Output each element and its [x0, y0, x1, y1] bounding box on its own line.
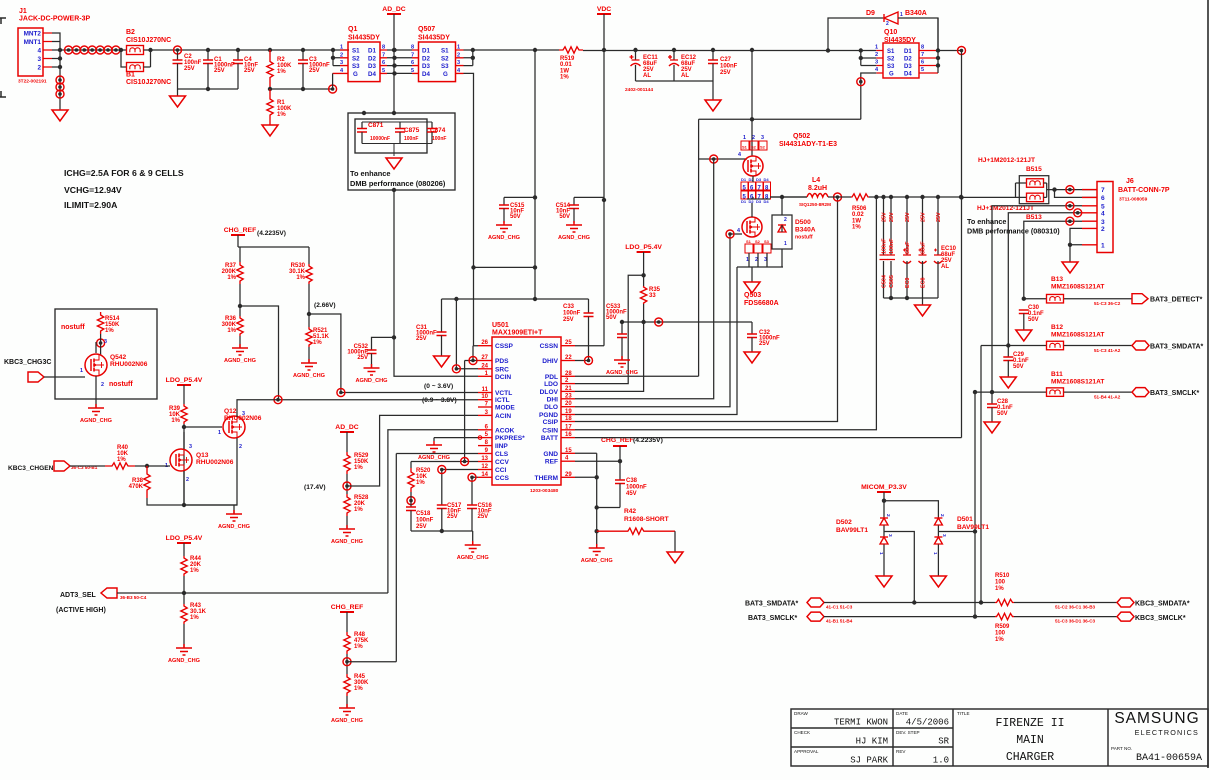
capacitor C875 label — [404, 127, 420, 134]
wire CCV row — [411, 462, 478, 469]
capacitor C518 label — [416, 511, 434, 530]
junction C28 — [990, 390, 994, 394]
transistor Q542 — [85, 354, 107, 376]
wire CCS row — [472, 477, 478, 505]
capacitor EC10 — [934, 197, 942, 298]
svg-text:Q542: Q542 — [110, 354, 126, 361]
svg-text:D2: D2 — [422, 55, 430, 62]
wire Q542 source gnd — [95, 376, 97, 408]
wire rail VDC segment — [464, 49, 560, 51]
connector J6 part name — [1118, 187, 1170, 194]
svg-text:1.0: 1.0 — [933, 756, 949, 766]
annotation box Q542 — [55, 309, 157, 399]
wire GND row — [575, 453, 597, 546]
junction B2 right — [148, 48, 152, 52]
diode D501 upper — [934, 518, 942, 525]
diode D9 — [884, 12, 903, 27]
svg-text:3: 3 — [761, 135, 764, 141]
transistor Q13 — [170, 449, 192, 471]
junction bank bus — [889, 296, 893, 300]
junction AD_DC row3 — [392, 63, 396, 67]
wire Q502 drain node — [747, 176, 807, 199]
wire J6 pin4 staircase — [1008, 213, 1082, 346]
wire R35 to C32 node — [622, 304, 752, 322]
transistor Q503 part — [744, 300, 779, 307]
resistor R506 — [851, 194, 869, 200]
junction C1 — [206, 48, 210, 52]
resistor R45 — [344, 674, 350, 696]
wire VDC vertical to CSSN — [603, 14, 605, 346]
junction EC10 — [936, 195, 940, 199]
wire J1 MNT1 — [52, 41, 60, 43]
connector J6 pin numbers — [1101, 187, 1105, 249]
svg-text:1203-003480: 1203-003480 — [530, 488, 559, 494]
svg-text:1%: 1% — [105, 328, 114, 334]
transistor Q502 — [743, 156, 763, 176]
resistor R2 label — [277, 57, 292, 75]
svg-text:BAV99LT1: BAV99LT1 — [836, 527, 868, 534]
svg-text:20: 20 — [565, 401, 572, 407]
wire C871 top bus — [362, 121, 432, 123]
junction AD_DC row4 — [392, 71, 396, 75]
svg-text:AGND_CHG: AGND_CHG — [293, 373, 325, 379]
capacitor C38 — [615, 480, 625, 508]
svg-text:D3: D3 — [756, 199, 762, 204]
wire AD_DC stem — [393, 14, 395, 113]
wire ICTL feed — [278, 399, 478, 401]
svg-text:J6: J6 — [1126, 178, 1134, 185]
svg-text:25V: 25V — [357, 355, 368, 361]
wire R530 R521 — [308, 284, 310, 327]
capacitor C31 label — [416, 325, 437, 342]
svg-text:D4: D4 — [764, 199, 770, 204]
svg-text:B513: B513 — [1026, 214, 1042, 221]
transistor Q503 reference — [744, 292, 761, 299]
power MICOM_P3.3V — [861, 484, 907, 492]
bead B515 lower — [1027, 193, 1044, 202]
capacitor EC9 — [903, 197, 911, 298]
svg-text:APPROVAL: APPROVAL — [794, 749, 819, 754]
off-page ref SMDATA bottom — [826, 605, 853, 610]
capacitor C875 — [395, 122, 405, 144]
resistor R48 label — [354, 632, 369, 650]
annotation box DMB 080206 outer — [348, 113, 455, 190]
svg-text:CCV: CCV — [495, 459, 510, 466]
svg-text:470K: 470K — [129, 484, 144, 490]
svg-text:Q12: Q12 — [224, 408, 237, 415]
resistor R40 label — [117, 445, 129, 463]
resistor R1 — [267, 89, 273, 125]
svg-text:(4.2235V): (4.2235V) — [257, 230, 286, 237]
svg-text:100nF: 100nF — [416, 518, 434, 524]
svg-text:3: 3 — [875, 60, 878, 66]
resistor R521 label — [313, 328, 330, 346]
wire R48 R45 — [346, 654, 348, 674]
wire R528 gnd — [346, 516, 348, 529]
capacitor C31 — [437, 299, 447, 356]
wire C514 tap — [574, 196, 604, 198]
svg-text:AGND_CHG: AGND_CHG — [457, 555, 489, 561]
svg-text:1%: 1% — [190, 615, 199, 621]
svg-text:2: 2 — [939, 514, 945, 517]
svg-text:3: 3 — [104, 339, 107, 345]
capacitor C29 label — [1013, 352, 1029, 370]
svg-text:S2: S2 — [751, 145, 757, 150]
svg-text:PART NO.: PART NO. — [1111, 746, 1132, 751]
svg-text:1: 1 — [743, 135, 746, 141]
bead B513 reference — [1026, 214, 1042, 221]
wire BAT3_DETECT row — [1024, 298, 1132, 300]
junction C29 — [1006, 343, 1010, 347]
bead B513 part — [977, 205, 1034, 212]
svg-text:1: 1 — [218, 430, 221, 436]
svg-text:nostuff: nostuff — [795, 235, 813, 241]
junction C505 — [889, 195, 893, 199]
circled junction below J1 — [56, 83, 64, 91]
wire Q12 drain to ICTL — [237, 400, 278, 417]
capacitor C516 label — [478, 503, 493, 520]
svg-text:CHARGER: CHARGER — [1006, 751, 1054, 764]
svg-text:33: 33 — [649, 293, 656, 299]
svg-text:RHU002N06: RHU002N06 — [224, 415, 262, 422]
wire L4 to R506 — [828, 196, 851, 198]
svg-text:4: 4 — [1101, 210, 1105, 217]
svg-text:51-C3 36-D1 36-C3: 51-C3 36-D1 36-C3 — [1055, 619, 1096, 624]
transistor Q502 top pin blocks — [741, 135, 767, 150]
annotation DMB performance 1 — [350, 179, 446, 188]
net flag KBC3_SMCLK — [1117, 612, 1134, 621]
svg-text:6: 6 — [921, 60, 924, 66]
svg-text:16: 16 — [565, 432, 572, 438]
svg-text:D2: D2 — [368, 55, 376, 62]
inductor L4 reference — [812, 177, 820, 184]
svg-text:B340A: B340A — [905, 10, 927, 17]
junction C515 riser — [533, 195, 537, 199]
svg-text:C518: C518 — [416, 511, 431, 517]
junction C504 — [881, 195, 885, 199]
transistor Q507 reference — [418, 26, 435, 33]
junction EC8 — [920, 195, 924, 199]
AGND_CHG below C514 — [558, 221, 590, 241]
svg-text:R506: R506 — [852, 206, 867, 212]
junction Q10 S2 — [859, 56, 863, 60]
junction THERM — [595, 475, 599, 479]
note ILIMIT — [64, 200, 118, 210]
junction SRC riser — [454, 297, 458, 301]
circled junction Q502 gate — [710, 155, 718, 163]
wire comp cap bus — [411, 531, 473, 545]
capacitor C1 — [203, 50, 213, 89]
resistor R36 — [237, 316, 243, 336]
svg-text:1%: 1% — [227, 328, 236, 334]
wire J1 MNT2 — [52, 33, 60, 50]
svg-text:19: 19 — [565, 409, 572, 415]
wire BATT riser — [575, 437, 962, 439]
circled junction L4 out — [834, 193, 842, 201]
wire C2 gnd stem — [177, 89, 179, 96]
net KBC3_SMCLK — [1135, 615, 1186, 622]
op-amp U501 PKPRES bubble — [478, 436, 482, 440]
svg-text:22: 22 — [565, 355, 572, 361]
svg-text:BATT-CONN-7P: BATT-CONN-7P — [1118, 187, 1170, 194]
svg-text:(ACTIVE HIGH): (ACTIVE HIGH) — [56, 607, 106, 614]
title block samsung cell — [1111, 710, 1202, 764]
svg-text:D4: D4 — [368, 71, 376, 78]
svg-text:CHG_REF: CHG_REF — [224, 227, 256, 234]
svg-text:15: 15 — [565, 448, 572, 454]
transistor Q10 body — [883, 43, 919, 78]
svg-text:C874: C874 — [430, 127, 446, 134]
junction SMCLK link — [973, 390, 977, 394]
title block check cell — [794, 730, 888, 747]
power ground below C31 — [434, 356, 450, 367]
wire C871 bottom bus — [362, 144, 432, 157]
wire R39 to gates — [184, 424, 222, 505]
net KBC3_SMDATA — [1135, 601, 1190, 608]
svg-text:CHG_REF: CHG_REF — [331, 604, 363, 611]
wire Q12 source — [184, 438, 237, 505]
circled junction VCTL — [337, 389, 345, 397]
svg-text:S1: S1 — [352, 48, 360, 55]
svg-text:DCIN: DCIN — [495, 374, 511, 381]
diode D502 lower — [880, 537, 888, 544]
capacitor EC12 label — [681, 55, 697, 79]
svg-text:2: 2 — [784, 217, 787, 223]
capacitor C874 value — [432, 136, 446, 142]
svg-text:25V: 25V — [905, 212, 911, 222]
resistor R42 — [597, 528, 675, 534]
diode D500 — [778, 225, 786, 232]
junction EC12 — [672, 48, 676, 52]
svg-text:U501: U501 — [492, 322, 509, 329]
power ground below C27 — [705, 100, 721, 111]
wire C2 C1 C4 ground bus — [178, 88, 239, 90]
svg-text:AD_DC: AD_DC — [335, 424, 359, 431]
svg-text:3: 3 — [1101, 219, 1105, 226]
junction R35 bottom — [641, 320, 645, 324]
svg-text:25V: 25V — [214, 68, 225, 74]
circled junction input rail — [72, 46, 80, 54]
svg-text:CIS10J270NC: CIS10J270NC — [126, 37, 171, 44]
title block dev step cell — [896, 730, 950, 747]
op-amp U501 part number — [530, 488, 559, 494]
power ground below R1 — [262, 125, 278, 136]
svg-text:ICTL: ICTL — [495, 397, 510, 404]
svg-text:25V: 25V — [936, 212, 942, 222]
op-amp U501 reference — [492, 322, 509, 329]
resistor R44 label — [190, 556, 202, 574]
svg-text:DATE: DATE — [896, 711, 908, 716]
transistor Q12 part — [224, 415, 262, 422]
circled junction Q10 gate — [857, 78, 865, 86]
circled junction R520 C518 — [407, 497, 415, 505]
svg-text:AL: AL — [681, 73, 689, 79]
junction Q12 gate — [182, 425, 186, 429]
junction Q10 D2 — [936, 56, 940, 60]
note 4.2235V — [633, 437, 663, 444]
resistor R520 label — [416, 468, 431, 486]
svg-text:DLO: DLO — [544, 404, 558, 411]
wire SMDATA bottom row — [824, 602, 995, 604]
wire DHI riser — [575, 159, 714, 399]
svg-text:REV: REV — [896, 749, 906, 754]
capacitor C532 — [367, 350, 377, 368]
junction AD_DC rail — [392, 48, 396, 52]
resistor R519 — [559, 47, 583, 53]
bead B13 part — [1051, 284, 1104, 291]
svg-text:JACK-DC-POWER-3P: JACK-DC-POWER-3P — [19, 16, 91, 23]
junction C514 tap — [602, 198, 606, 202]
svg-text:TITLE: TITLE — [957, 711, 970, 716]
svg-text:AL: AL — [643, 73, 651, 79]
connector J6 reference — [1126, 178, 1134, 185]
bead B1 reference — [126, 72, 135, 79]
wire Q10 gate riser — [861, 73, 877, 119]
svg-text:SAMSUNG: SAMSUNG — [1114, 710, 1199, 727]
junction battery rail — [959, 195, 963, 199]
svg-text:2: 2 — [37, 65, 41, 72]
sheet left border tick — [0, 91, 6, 97]
svg-text:EC8: EC8 — [921, 278, 927, 289]
svg-text:3: 3 — [37, 56, 41, 63]
transistor Q10 part — [884, 37, 916, 44]
svg-text:5: 5 — [921, 67, 924, 73]
wire R43 gnd — [183, 624, 185, 648]
svg-text:TERMI KWON: TERMI KWON — [834, 718, 888, 728]
capacitor C514 — [569, 197, 579, 223]
resistor R39 — [181, 404, 187, 424]
svg-text:1%: 1% — [354, 507, 363, 513]
power LDO_P5.4V upper — [166, 377, 203, 385]
junction C532 tap — [392, 335, 396, 339]
svg-text:3T22-002191: 3T22-002191 — [18, 79, 47, 85]
svg-text:S2: S2 — [755, 239, 761, 244]
annotation DMB performance 2 — [967, 227, 1060, 236]
capacitor C874 — [427, 122, 437, 144]
svg-text:AL: AL — [941, 264, 949, 270]
wire AD_DC to R529 — [346, 432, 348, 452]
svg-text:4: 4 — [737, 228, 740, 234]
bead B12 part — [1051, 332, 1104, 339]
svg-text:D4: D4 — [764, 177, 770, 182]
transistor Q502 part — [779, 141, 837, 148]
wire CCI row — [442, 470, 478, 506]
svg-text:11: 11 — [482, 387, 489, 393]
svg-text:B11: B11 — [1051, 371, 1063, 378]
power ground below C871 — [386, 158, 402, 169]
voltage note 0-3.6V — [424, 383, 453, 390]
junction J1 — [58, 48, 62, 52]
wire PKPRES gnd — [434, 438, 478, 441]
power ground below C30 — [1016, 330, 1032, 341]
wire D502 mid — [884, 526, 914, 603]
wire KBC3_CHGEN — [70, 465, 105, 467]
junction MICOM — [882, 499, 886, 503]
EC11 part number — [625, 87, 653, 93]
svg-text:PDS: PDS — [495, 358, 509, 365]
svg-text:1%: 1% — [560, 75, 569, 81]
svg-text:nostuff: nostuff — [109, 381, 133, 388]
capacitor EC11 — [630, 50, 641, 81]
note ICHG — [64, 168, 184, 178]
svg-text:D1: D1 — [422, 48, 430, 55]
svg-text:DHIV: DHIV — [542, 358, 558, 365]
wire ADT3_SEL row — [117, 592, 388, 594]
svg-text:Q502: Q502 — [793, 133, 810, 140]
svg-text:BATT: BATT — [541, 435, 558, 442]
svg-text:C33: C33 — [563, 304, 575, 310]
resistor R48 — [344, 632, 350, 654]
power ground below cap bank — [915, 305, 931, 316]
svg-text:25V: 25V — [184, 66, 195, 72]
circled junction CLS tap — [343, 658, 351, 666]
svg-text:KBC3_SMCLK*: KBC3_SMCLK* — [1135, 615, 1186, 622]
svg-text:AGND_CHG: AGND_CHG — [355, 378, 387, 384]
svg-text:23: 23 — [565, 393, 572, 399]
capacitor C533 — [617, 322, 627, 360]
wire R44 to R43 — [183, 576, 185, 604]
capacitor C3 label — [309, 57, 330, 74]
circled junction J6 pin5 — [1066, 202, 1074, 210]
circled junction CCV — [461, 458, 469, 466]
wire SMCLK bottom row — [824, 616, 995, 618]
wire R40 to Q13 gate — [135, 465, 170, 467]
svg-text:100nF: 100nF — [882, 238, 888, 254]
bead B11 reference — [1051, 371, 1063, 378]
resistor R530 label — [289, 263, 306, 281]
svg-text:25V: 25V — [759, 341, 770, 347]
circled junction DHIV — [585, 357, 593, 365]
junction C4 — [236, 48, 240, 52]
svg-text:MMZ1608S121AT: MMZ1608S121AT — [1051, 284, 1104, 291]
svg-text:2: 2 — [101, 382, 104, 388]
AGND_CHG below R36 — [224, 344, 256, 364]
op-amp U501 right pins — [535, 340, 575, 482]
resistor R40 — [105, 463, 135, 469]
junction AD_DC row1 — [392, 48, 396, 52]
wire DCIN from adapter — [394, 190, 478, 376]
svg-text:D3: D3 — [904, 64, 912, 70]
wire R509 to KBC3_SMCLK — [1014, 616, 1117, 618]
svg-text:D1: D1 — [368, 48, 376, 55]
svg-text:PGND: PGND — [539, 412, 558, 419]
svg-text:KBC3_CHG3C: KBC3_CHG3C — [4, 359, 51, 366]
circled junction battery drop — [958, 47, 966, 55]
capacitor C504 — [880, 197, 888, 298]
svg-text:17: 17 — [565, 424, 572, 430]
svg-text:L4: L4 — [812, 177, 820, 184]
AGND_CHG below R45 — [331, 704, 363, 724]
power ground below J6 — [1062, 262, 1078, 273]
junction D501 tap — [973, 529, 977, 533]
circled junction R514 Q542 — [97, 339, 105, 347]
svg-text:1%: 1% — [995, 586, 1004, 592]
title block date cell — [896, 711, 949, 728]
svg-text:50V: 50V — [559, 214, 570, 220]
circled junction Q1 gate — [329, 85, 337, 93]
circled junction input rail — [80, 46, 88, 54]
diode D501 pin numbers — [932, 514, 947, 555]
svg-text:DEV. STEP: DEV. STEP — [896, 730, 920, 735]
title block title cell — [957, 711, 1065, 764]
bead B11 part — [1051, 379, 1104, 386]
capacitor C4 label — [244, 57, 258, 74]
transistor Q542 reference — [110, 354, 126, 361]
wire DLOV riser — [575, 322, 644, 391]
wire LDO lower stem — [183, 543, 185, 556]
transistor Q507 pin stubs — [412, 50, 464, 73]
wire CSIP riser — [575, 197, 838, 422]
